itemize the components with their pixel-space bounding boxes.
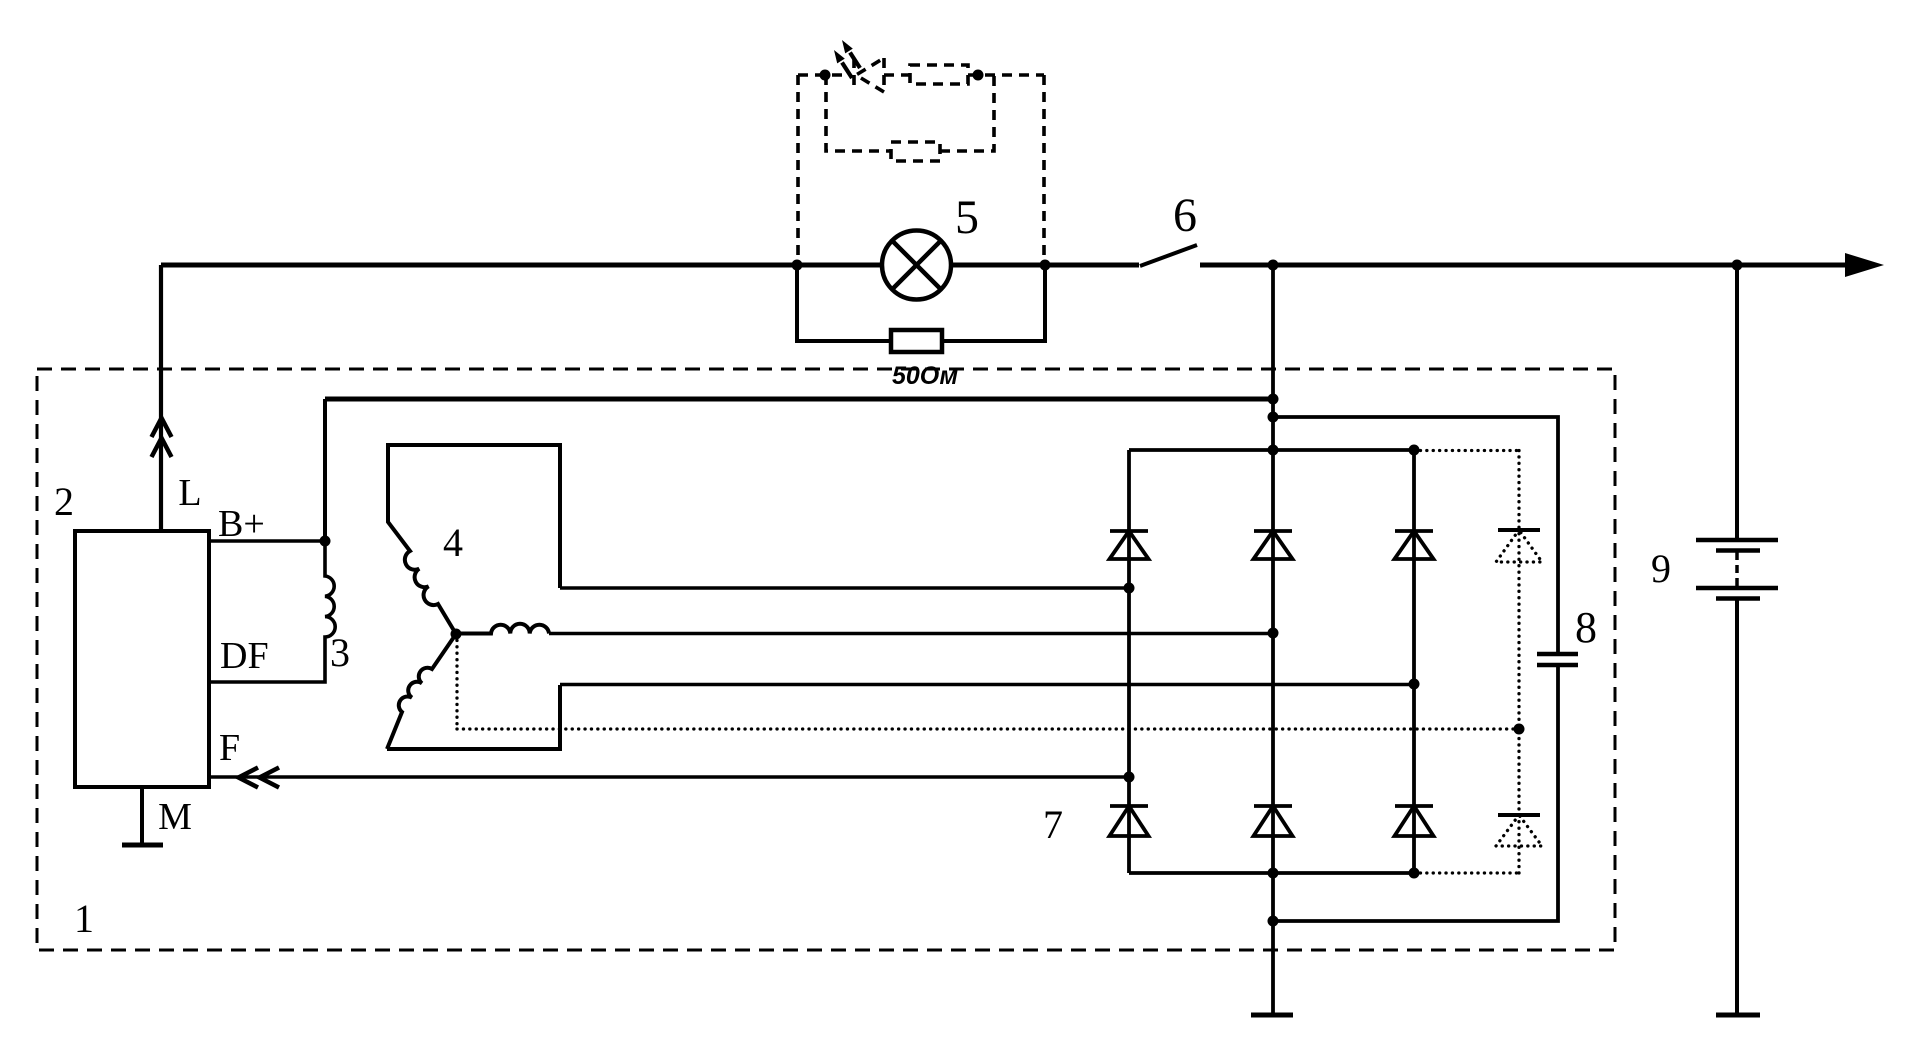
- svg-text:5: 5: [955, 191, 979, 244]
- svg-text:L: L: [178, 472, 201, 514]
- svg-text:1: 1: [74, 896, 94, 941]
- svg-text:M: M: [158, 796, 192, 838]
- svg-text:9: 9: [1651, 546, 1671, 591]
- svg-text:B+: B+: [218, 503, 265, 545]
- svg-text:50Ом: 50Ом: [892, 362, 958, 390]
- svg-text:F: F: [219, 727, 240, 769]
- svg-text:2: 2: [54, 479, 74, 524]
- svg-text:8: 8: [1575, 603, 1597, 652]
- svg-text:3: 3: [330, 630, 350, 675]
- svg-text:4: 4: [443, 520, 463, 565]
- svg-text:7: 7: [1043, 802, 1063, 847]
- svg-text:DF: DF: [220, 635, 269, 677]
- svg-text:6: 6: [1173, 189, 1197, 242]
